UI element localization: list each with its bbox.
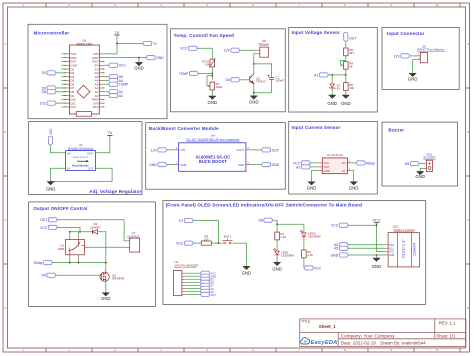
svg-text:12V: 12V	[224, 49, 231, 53]
svg-text:7V: 7V	[107, 130, 112, 135]
net tag D3	[47, 71, 56, 75]
svg-text:Mini360 3A Module: Mini360 3A Module	[68, 146, 94, 150]
svg-text:Buck Module: Buck Module	[72, 163, 89, 167]
net tag A1	[109, 90, 118, 94]
junction button node	[218, 242, 220, 244]
svg-text:C: C	[467, 218, 469, 222]
wire VCC rail	[58, 227, 81, 231]
decoration diamond on U5	[77, 85, 90, 98]
svg-text:VCC: VCC	[40, 226, 48, 230]
net tag OUT header	[200, 292, 209, 296]
wire relay node	[53, 262, 106, 264]
svg-text:12V: 12V	[394, 54, 401, 58]
svg-text:OUT: OUT	[272, 148, 279, 152]
ground under IP-	[350, 182, 357, 185]
relay K1 SRD body	[65, 240, 84, 255]
svg-text:Buck/Boost Converter Module: Buck/Boost Converter Module	[149, 126, 219, 131]
junction temp node	[211, 73, 213, 75]
wire node to D1	[331, 75, 333, 84]
ground under BUT1	[243, 266, 250, 269]
ground under U6	[409, 73, 416, 76]
block box Input Connector	[382, 27, 459, 89]
net tag D7 panel	[184, 218, 193, 222]
wire GND right	[251, 164, 262, 166]
pins U8	[256, 50, 260, 54]
wire A4	[104, 79, 109, 81]
svg-text:A2: A2	[296, 165, 300, 169]
net tag OUT vertical	[344, 33, 348, 42]
block box Input Voltage Sensor	[289, 27, 378, 112]
svg-text:B: B	[4, 130, 6, 134]
wire VCC flag down	[377, 223, 385, 252]
svg-text:Drawn By: svalentin544: Drawn By: svalentin544	[380, 340, 426, 345]
svg-text:128x64: 128x64	[412, 242, 417, 256]
svg-text:U2 ACS712: U2 ACS712	[327, 153, 343, 157]
wire bottom rail	[254, 92, 272, 94]
transistor Q1 TIP122	[250, 74, 254, 83]
wire 12V to VIN	[167, 149, 174, 151]
wire R7 to ground	[211, 90, 213, 96]
wire D3	[56, 72, 65, 74]
net tag GND	[146, 56, 155, 60]
net tag 12V vertical	[48, 136, 52, 145]
svg-text:GND: GND	[180, 163, 186, 167]
net tag D8	[47, 90, 56, 94]
wire D8 to LEDs	[273, 220, 277, 232]
net tag VCC	[109, 63, 118, 67]
resistor R3 10k	[201, 241, 211, 245]
svg-text:OUTPUT: OUTPUT	[127, 234, 140, 238]
net tag 12V input	[401, 54, 410, 58]
wire A2	[104, 95, 109, 97]
svg-text:Input Current Sensor: Input Current Sensor	[292, 125, 341, 130]
diode D2 1N4007	[93, 230, 98, 234]
junction relay node	[69, 262, 71, 264]
svg-text:GND: GND	[408, 77, 418, 82]
ground under U5 GND	[136, 63, 143, 66]
wire R8 to node	[345, 69, 347, 83]
svg-text:GND: GND	[242, 271, 252, 276]
net tag GND buck right	[261, 163, 270, 167]
wire R5 to R8	[345, 56, 347, 62]
wire R1 to LED1	[276, 240, 278, 251]
connector U1 header body	[173, 270, 182, 295]
buzzer SG1 body	[426, 160, 432, 171]
op-amp U5 arduino nano body	[69, 45, 99, 114]
wire GND to U4	[167, 164, 174, 166]
svg-text:Sheet: 1/1: Sheet: 1/1	[436, 334, 456, 339]
svg-text:TEMP: TEMP	[119, 83, 129, 87]
wire to LED2 branch	[277, 224, 304, 233]
wire D2 to drain node	[98, 232, 106, 272]
svg-text:Adj. Voltage Regulator: Adj. Voltage Regulator	[89, 189, 141, 194]
svg-text:D8: D8	[258, 219, 262, 223]
wire TEMP	[104, 83, 109, 85]
svg-text:GND: GND	[156, 56, 164, 60]
wire VCC oled rail	[348, 224, 376, 226]
svg-text:5k: 5k	[349, 65, 353, 69]
svg-text:D4: D4	[225, 78, 229, 82]
net tag D8 panel	[264, 218, 273, 222]
svg-text:5V Fan: 5V Fan	[259, 42, 269, 46]
potentiometer R8	[344, 61, 349, 69]
svg-text:IRFZ44N: IRFZ44N	[112, 276, 124, 280]
svg-text:100 PIN HEADER: 100 PIN HEADER	[174, 264, 199, 268]
svg-text:Temp. Controll Fan Speed: Temp. Controll Fan Speed	[174, 33, 234, 38]
resistor R2 1.2k	[302, 250, 307, 258]
svg-text:TITLE:: TITLE:	[301, 320, 311, 324]
wire R6 to ground	[345, 91, 347, 96]
svg-text:GND: GND	[149, 163, 157, 167]
wire emitter to ground rail	[253, 83, 255, 96]
junction gnd oled	[376, 254, 378, 256]
ground under regulator	[47, 182, 54, 185]
svg-text:GND: GND	[415, 174, 425, 179]
wire D11	[56, 102, 65, 104]
net tag GND header	[200, 274, 209, 278]
svg-text:A2: A2	[119, 94, 123, 98]
svg-text:10k: 10k	[205, 62, 210, 66]
wire LED2 to R2	[303, 237, 305, 250]
net tag A4	[109, 78, 118, 82]
junction vcc oled	[376, 224, 378, 226]
net tag GND oled	[339, 253, 348, 257]
svg-text:D8: D8	[42, 90, 46, 94]
ground under R7	[209, 96, 216, 99]
svg-text:GND: GND	[307, 186, 317, 191]
net tag A2 current	[301, 165, 310, 169]
wire ground loop regulator	[51, 168, 113, 181]
wire 12V down to IN+	[51, 145, 66, 152]
svg-text:VCC: VCC	[372, 218, 381, 223]
svg-text:OUT+: OUT+	[87, 151, 94, 155]
svg-text:A1: A1	[314, 73, 318, 77]
svg-text:VCC: VCC	[119, 64, 127, 68]
svg-text:A5: A5	[334, 247, 338, 251]
junction coil node	[69, 231, 71, 233]
wire LED1 to ground	[276, 255, 278, 263]
push button BUT1	[222, 239, 232, 244]
net tag A1 voltage	[319, 73, 328, 77]
net tag A4 header	[200, 286, 209, 290]
wire D6 to buzzer	[419, 163, 423, 165]
wire 12V to U6	[410, 55, 417, 57]
block box Microcontroller	[28, 24, 167, 118]
svg-text:IN-: IN-	[67, 167, 71, 171]
net tag D7 header	[200, 283, 209, 287]
block box Input Current Sensor	[289, 122, 378, 195]
svg-text:VCC: VCC	[314, 266, 322, 270]
ground under Q2	[102, 293, 109, 296]
pins and tags U1 header	[182, 273, 200, 294]
net tag VCC onoff	[48, 225, 57, 229]
svg-text:GND: GND	[208, 100, 218, 105]
ground under R6	[342, 95, 349, 98]
svg-text:D: D	[467, 306, 469, 310]
wire R2 to VCC tag	[303, 258, 305, 268]
svg-text:B: B	[467, 130, 469, 134]
svg-text:A: A	[467, 42, 469, 46]
net tag VCC header	[200, 271, 209, 275]
svg-text:BUCK BOOST: BUCK BOOST	[199, 159, 228, 164]
svg-text:OUT: OUT	[349, 36, 356, 40]
connector U6	[420, 52, 427, 62]
svg-text:IP-: IP-	[343, 169, 347, 173]
net tag OUT buck	[261, 148, 270, 152]
net tag D9	[47, 86, 56, 90]
transistor Q2 IRFZ44N	[100, 272, 109, 282]
led LED2	[300, 230, 306, 237]
potentiometer R7 100k	[210, 82, 215, 90]
junction at 7V stem	[116, 43, 118, 45]
net tag VCC temp	[188, 46, 197, 50]
net tag 7V	[143, 41, 152, 45]
net tag VCC oled	[339, 223, 348, 227]
pins U5 left side	[61, 52, 78, 109]
junction regulator gnd	[50, 181, 52, 183]
wire buzzer to ground	[420, 169, 423, 172]
svg-text:10: 10	[435, 348, 439, 352]
svg-text:12V: 12V	[151, 148, 158, 152]
thermistor NTC1 10k	[210, 59, 215, 67]
wire D9	[56, 87, 65, 89]
net tag VCC panel	[184, 241, 193, 245]
svg-text:7V: 7V	[153, 42, 158, 46]
wire GND pin to tag	[104, 57, 146, 59]
svg-text:D12: D12	[70, 105, 76, 109]
usb connector mark on U5	[76, 112, 91, 117]
svg-text:1.2k: 1.2k	[307, 253, 313, 257]
svg-text:GND: GND	[101, 296, 111, 301]
wire IP+ to Relay	[352, 162, 356, 164]
net tag GND buck left	[158, 163, 167, 167]
ground under D1	[329, 95, 336, 98]
wire A5 to oled	[348, 247, 384, 249]
svg-text:VCC: VCC	[176, 242, 184, 246]
wire A1	[104, 91, 109, 93]
net tag A5 oled	[339, 246, 348, 250]
svg-text:TEMP: TEMP	[179, 72, 189, 76]
svg-text:VIN: VIN	[180, 148, 185, 152]
connector U7	[130, 238, 140, 252]
svg-text:1N4007: 1N4007	[90, 225, 101, 229]
wire A2 to U2	[311, 166, 318, 168]
svg-text:Sheet_1: Sheet_1	[319, 324, 336, 329]
svg-text:D: D	[4, 306, 6, 310]
svg-text:VOUT: VOUT	[237, 148, 245, 152]
pins SG1	[423, 164, 427, 169]
svg-text:GND: GND	[134, 65, 144, 70]
svg-text:BUT1: BUT1	[224, 235, 232, 239]
zener diode D1	[329, 84, 335, 89]
svg-text:LED5MM: LED5MM	[281, 253, 294, 257]
block box Buck Boost Converter Module	[146, 122, 286, 189]
wire A5	[104, 76, 109, 78]
wire Q2 source to ground	[105, 282, 107, 293]
wire button to ground	[233, 243, 247, 266]
net tag D5 gate	[47, 273, 56, 277]
wire VCC to NTC1	[198, 48, 213, 59]
net tag D4	[231, 78, 240, 82]
svg-text:10k: 10k	[204, 237, 209, 241]
module U3 body	[66, 151, 96, 171]
svg-text:D13: D13	[93, 105, 99, 109]
net tag TEMP	[189, 71, 198, 75]
relay K1 internals	[68, 240, 84, 255]
svg-text:GND: GND	[249, 100, 259, 105]
svg-text:C: C	[4, 218, 6, 222]
net tag Relay onoff	[43, 261, 52, 265]
svg-text:VCC: VCC	[331, 224, 339, 228]
wire gnd flag down	[376, 255, 378, 258]
svg-text:arduino_nano: arduino_nano	[76, 42, 92, 46]
block box Temp Controll Fan Speed	[171, 29, 286, 112]
wire Q1 collector	[253, 72, 255, 74]
wire 12V to fan	[240, 49, 256, 51]
wire C1 to rail	[271, 79, 273, 92]
net tag TEMP	[109, 82, 118, 86]
pins U4	[174, 150, 251, 165]
wiper loop R8	[341, 60, 346, 65]
wire OUT to R5	[345, 42, 347, 48]
net tag D11	[47, 101, 56, 105]
wire NTC1 to node	[211, 67, 213, 80]
junction VCC corner	[79, 231, 81, 233]
svg-text:DC-DC XL6009 (BLUE two inducto: DC-DC XL6009 (BLUE two inductors)	[186, 138, 239, 142]
wire R3 to button	[211, 242, 222, 244]
block box Adj Voltage Regulator	[29, 122, 142, 195]
svg-text:MODE IN DC-DC: MODE IN DC-DC	[73, 157, 89, 159]
ground under U2	[308, 182, 315, 185]
wire IP- to ground	[352, 171, 354, 182]
net tag D6 header	[200, 280, 209, 284]
svg-text:D11: D11	[40, 102, 46, 106]
block box Front Panel	[163, 201, 426, 305]
junction GND node	[138, 57, 140, 59]
net tag A5	[109, 75, 118, 79]
svg-text:TIP122: TIP122	[256, 80, 266, 84]
logo EasyEDA	[301, 338, 310, 344]
svg-text:OLED 1.3 INCH: OLED 1.3 INCH	[393, 228, 414, 232]
svg-text:INPUT From Battery: INPUT From Battery	[417, 48, 445, 52]
wire VCC to U2	[311, 162, 318, 164]
svg-text:Buzzer: Buzzer	[388, 128, 404, 133]
module U4 XL6009 body	[179, 143, 246, 172]
svg-text:GND: GND	[46, 187, 56, 192]
net tag D5 header	[200, 277, 209, 281]
junction fan node	[253, 63, 255, 65]
wire fan minus to collector	[254, 54, 256, 73]
svg-text:100uF: 100uF	[275, 79, 284, 83]
pins U6	[417, 56, 421, 60]
wire GND to oled	[348, 254, 384, 256]
svg-text:GND: GND	[327, 101, 337, 106]
wire A1 to node	[329, 74, 346, 76]
svg-text:Company: Your Company: Company: Your Company	[341, 334, 395, 339]
svg-text:Microcontroller: Microcontroller	[34, 30, 70, 35]
wire OUT to U7	[58, 220, 127, 241]
svg-text:Output ON/OFF Control: Output ON/OFF Control	[33, 206, 87, 211]
svg-text:Date: 2022-02-19: Date: 2022-02-19	[341, 340, 377, 345]
wire relay switch to U7	[85, 246, 89, 248]
wire U6 pin2 to ground	[413, 60, 417, 74]
wire to 7V tag	[117, 43, 143, 45]
wire relay bottom stubs	[70, 255, 79, 259]
resistor R6 10k	[344, 83, 349, 91]
pins U2	[318, 163, 352, 171]
wire to C1 top	[254, 64, 272, 77]
net tag OUT onoff	[48, 218, 57, 222]
wire D8	[56, 91, 65, 93]
net tag A5 header	[200, 289, 209, 293]
net tag D6	[410, 162, 419, 166]
ic U2 ACS712 body	[322, 158, 347, 174]
net tag VCC led	[304, 266, 313, 270]
pins U5 right side	[92, 52, 105, 109]
wire D5 to gate	[56, 274, 100, 276]
wire U2 GND	[312, 171, 318, 182]
wire rail to D2	[70, 231, 93, 233]
svg-text:D5: D5	[41, 274, 45, 278]
svg-text:12V: 12V	[49, 128, 53, 135]
svg-text:GND: GND	[324, 169, 330, 173]
ground under Q1	[250, 96, 257, 99]
wire down to ground	[138, 58, 140, 63]
svg-text:LED5MM: LED5MM	[308, 234, 321, 238]
capacitor C1 100uF	[268, 75, 275, 80]
block box Output ON OFF Control	[29, 202, 156, 307]
svg-text:BUZZER: BUZZER	[424, 156, 437, 160]
wire VOUT to OUT	[251, 149, 262, 151]
connector U8 fan	[260, 47, 269, 57]
svg-text:D7: D7	[179, 219, 183, 223]
svg-text:GND: GND	[389, 254, 395, 257]
svg-text:10: 10	[435, 3, 439, 7]
pins DS1	[385, 245, 389, 255]
svg-text:Input Voltage Sensor: Input Voltage Sensor	[292, 30, 341, 35]
wire 5V to VCC tag	[104, 64, 109, 66]
svg-text:GND: GND	[349, 186, 359, 191]
net tag A2	[109, 93, 118, 97]
wire D1 to ground	[331, 88, 333, 95]
svg-text:REV: 1.1: REV: 1.1	[439, 321, 456, 326]
wire 7V to VIN	[116, 35, 118, 54]
net tag Relay	[356, 161, 365, 165]
svg-text:D6: D6	[405, 162, 409, 166]
wire D4 to base	[240, 79, 250, 81]
svg-text:GND: GND	[331, 253, 339, 257]
wire TEMP tag	[199, 72, 213, 74]
resistor R1 1.2k	[275, 232, 280, 240]
svg-text:EasyEDA: EasyEDA	[311, 340, 338, 346]
pins U7	[126, 241, 130, 247]
title block	[300, 319, 466, 347]
ground under buzzer	[417, 172, 424, 175]
junction voltage nodes	[331, 74, 333, 76]
svg-text:Input Connector: Input Connector	[387, 31, 425, 36]
led LED1	[273, 248, 279, 255]
svg-text:IN+: IN+	[67, 151, 72, 155]
wire rheostat wiper loop	[207, 76, 212, 86]
net tag A4 oled	[339, 243, 348, 247]
svg-text:3k7: 3k7	[349, 51, 354, 55]
oled DS1 body	[388, 233, 419, 267]
svg-text:Relay: Relay	[34, 261, 43, 265]
svg-text:GND: GND	[238, 163, 244, 167]
svg-text:GND: GND	[372, 264, 382, 269]
svg-text:OUT: OUT	[40, 218, 47, 222]
resistor R5 3k7	[344, 48, 349, 56]
